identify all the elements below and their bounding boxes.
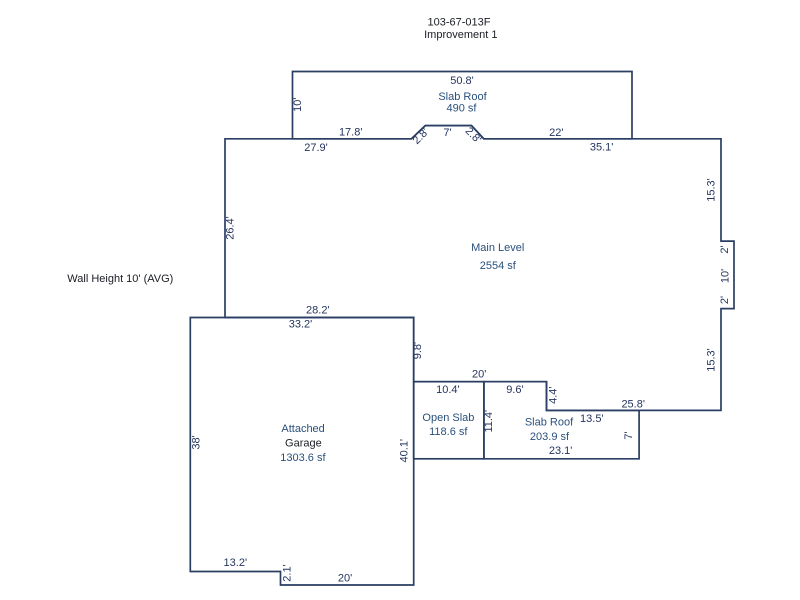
- svg-text:35.1': 35.1': [590, 142, 614, 154]
- svg-text:17.8': 17.8': [339, 127, 363, 139]
- svg-text:22': 22': [549, 127, 563, 139]
- svg-text:20': 20': [338, 573, 352, 585]
- svg-text:2.8': 2.8': [411, 126, 432, 147]
- svg-text:1303.6 sf: 1303.6 sf: [280, 452, 326, 464]
- svg-text:Slab Roof: Slab Roof: [525, 416, 574, 428]
- svg-text:Garage: Garage: [285, 437, 322, 449]
- area outline: Slab Roof (bottom, 203.9 sf): [484, 382, 639, 459]
- svg-text:25.8': 25.8': [621, 399, 645, 411]
- svg-text:10.4': 10.4': [436, 384, 460, 396]
- area outline: Main Level: [225, 126, 734, 411]
- svg-text:11.4': 11.4': [483, 410, 495, 433]
- svg-text:10': 10': [292, 98, 304, 112]
- svg-text:38': 38': [190, 435, 202, 449]
- svg-text:Wall Height 10' (AVG): Wall Height 10' (AVG): [67, 273, 173, 285]
- svg-text:Open Slab: Open Slab: [422, 412, 474, 424]
- svg-text:Improvement 1: Improvement 1: [424, 29, 497, 41]
- svg-text:7': 7': [623, 431, 635, 439]
- svg-text:Main Level: Main Level: [471, 242, 524, 254]
- svg-text:2': 2': [719, 245, 731, 253]
- svg-text:490 sf: 490 sf: [447, 103, 478, 115]
- svg-text:20': 20': [472, 369, 486, 381]
- svg-text:50.8': 50.8': [450, 75, 474, 87]
- svg-text:4.4': 4.4': [547, 386, 559, 403]
- svg-text:7': 7': [443, 127, 451, 139]
- svg-text:15.3': 15.3': [706, 178, 718, 202]
- svg-text:10': 10': [720, 269, 732, 283]
- svg-text:2': 2': [719, 296, 731, 304]
- svg-text:27.9': 27.9': [304, 142, 328, 154]
- svg-text:2.8': 2.8': [463, 125, 484, 146]
- svg-text:9.6': 9.6': [506, 384, 523, 396]
- svg-text:Attached: Attached: [281, 423, 324, 435]
- area outline: Attached Garage: [190, 318, 413, 586]
- area outline: Open Slab: [414, 382, 484, 459]
- svg-text:2.1': 2.1': [281, 564, 293, 581]
- svg-text:26.4': 26.4': [224, 216, 236, 240]
- svg-text:2554 sf: 2554 sf: [480, 260, 517, 272]
- svg-text:9.8': 9.8': [412, 342, 424, 359]
- svg-text:15.3': 15.3': [706, 348, 718, 372]
- area outline: Slab Roof (top, 490 sf): [293, 72, 633, 139]
- svg-text:118.6 sf: 118.6 sf: [429, 426, 468, 438]
- svg-text:13.2': 13.2': [224, 557, 248, 569]
- svg-text:23.1': 23.1': [549, 445, 573, 457]
- svg-text:13.5': 13.5': [580, 413, 604, 425]
- svg-text:203.9 sf: 203.9 sf: [530, 431, 570, 443]
- svg-text:103-67-013F: 103-67-013F: [428, 17, 491, 29]
- svg-text:40.1': 40.1': [398, 439, 410, 463]
- svg-text:Slab Roof: Slab Roof: [438, 91, 487, 103]
- svg-text:33.2': 33.2': [289, 319, 313, 331]
- svg-text:28.2': 28.2': [306, 305, 330, 317]
